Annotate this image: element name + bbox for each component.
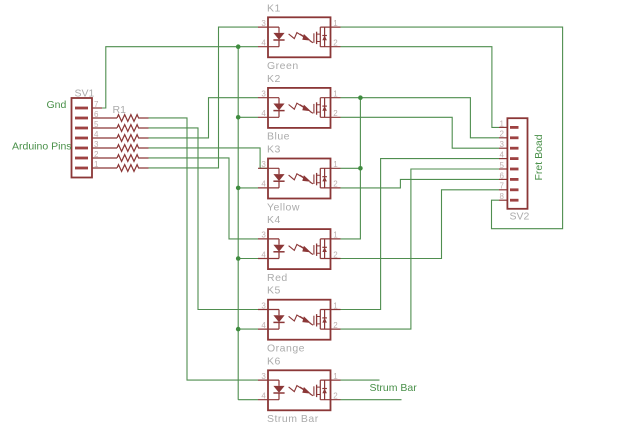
wire column K2 pin1 / K3 pin1 / K4 pin1 — [341, 98, 361, 239]
svg-text:Green: Green — [267, 60, 299, 72]
wire SV1.5 to K5 pin3 — [149, 128, 259, 310]
junction Gnd rail / K3 pin4 — [236, 186, 241, 191]
junction Gnd rail / K1 pin4 — [236, 44, 241, 49]
svg-text:R1: R1 — [113, 104, 127, 116]
junction Gnd rail / K2 pin4 — [236, 115, 241, 120]
svg-text:Strum Bar: Strum Bar — [370, 382, 418, 394]
svg-text:2: 2 — [94, 150, 99, 159]
svg-text:Red: Red — [267, 272, 288, 284]
svg-text:K6: K6 — [267, 355, 281, 367]
wire K3 pin2 to SV2 pin6 — [341, 179, 500, 188]
optocoupler K4 (Red) — [258, 214, 341, 284]
svg-text:Blue: Blue — [267, 131, 290, 143]
svg-text:K2: K2 — [267, 73, 281, 85]
svg-text:5: 5 — [94, 120, 99, 129]
wire K5 pin1 to SV2 pin4 — [341, 159, 500, 310]
svg-text:Fret Boad: Fret Boad — [533, 134, 545, 180]
wire K6 pin1 stub (Strum Bar net) — [341, 379, 380, 381]
wire K6 pin2 stub — [341, 399, 402, 401]
svg-text:Strum Bar: Strum Bar — [267, 413, 319, 425]
svg-text:8: 8 — [500, 192, 505, 201]
resistor network R1 (6 resistors) — [113, 104, 149, 171]
svg-text:Orange: Orange — [267, 343, 305, 355]
wire K4 pin2 to SV2 pin7 — [341, 190, 500, 259]
svg-text:Gnd: Gnd — [47, 99, 67, 111]
wire K5 pin2 to SV2 pin5 — [341, 169, 500, 329]
svg-text:K1: K1 — [267, 2, 281, 14]
wire K1 pin1 around right side to SV2 pin8 — [341, 27, 563, 229]
wire K2 pin2 to SV2 pin3 — [341, 117, 500, 148]
svg-text:SV1: SV1 — [75, 88, 95, 100]
svg-text:Yellow: Yellow — [267, 201, 300, 213]
wire Gnd: SV1 pin7 up and across to K1 pin4 — [102, 47, 258, 108]
svg-text:4: 4 — [500, 151, 505, 160]
optocoupler K6 (Strum Bar) — [258, 355, 341, 425]
junction Gnd rail / K4 pin4 — [236, 256, 241, 261]
svg-text:3: 3 — [500, 140, 505, 149]
junction Gnd rail / K5 pin4 — [236, 327, 241, 332]
connector SV1 (7-pin header, Arduino side) — [72, 88, 118, 178]
connector SV2 (8-pin header, Fret Board side) — [499, 118, 530, 222]
svg-text:6: 6 — [94, 110, 99, 119]
wire SV1.2 to K4 pin3 — [149, 158, 259, 239]
junction K2 pin1 column — [358, 95, 363, 100]
svg-text:1: 1 — [500, 119, 505, 128]
junction K3 pin1 column — [358, 166, 363, 171]
svg-text:SV2: SV2 — [510, 211, 530, 223]
optocoupler K3 (Yellow) — [258, 144, 341, 214]
optocoupler K1 (Green) — [258, 2, 341, 72]
optocoupler K5 (Orange) — [258, 285, 341, 355]
wire SV1.1 to K1 pin3 — [149, 27, 259, 168]
wire SV1.4 to K2 pin3 — [149, 98, 259, 138]
svg-text:1: 1 — [94, 160, 99, 169]
wire K2 pin1 to SV2 pin2 — [341, 98, 500, 138]
svg-text:K5: K5 — [267, 285, 281, 297]
svg-text:2: 2 — [500, 130, 505, 139]
svg-text:4: 4 — [94, 130, 99, 139]
svg-text:3: 3 — [94, 140, 99, 149]
svg-text:K3: K3 — [267, 144, 281, 156]
svg-text:7: 7 — [94, 100, 99, 109]
wire SV1.3 to K3 pin3 — [149, 148, 269, 168]
svg-text:5: 5 — [500, 161, 505, 170]
svg-text:6: 6 — [500, 171, 505, 180]
wire K1 pin2 to SV2 pin1 — [341, 47, 500, 128]
optocoupler K2 (Blue) — [258, 73, 341, 143]
svg-text:7: 7 — [500, 182, 505, 191]
svg-text:K4: K4 — [267, 214, 281, 226]
wire SV1.6 to K6 pin3 — [149, 118, 259, 380]
svg-text:Arduino Pins: Arduino Pins — [12, 141, 72, 153]
wire Gnd vertical rail with branches to K2..K6 pin4 — [238, 47, 258, 400]
